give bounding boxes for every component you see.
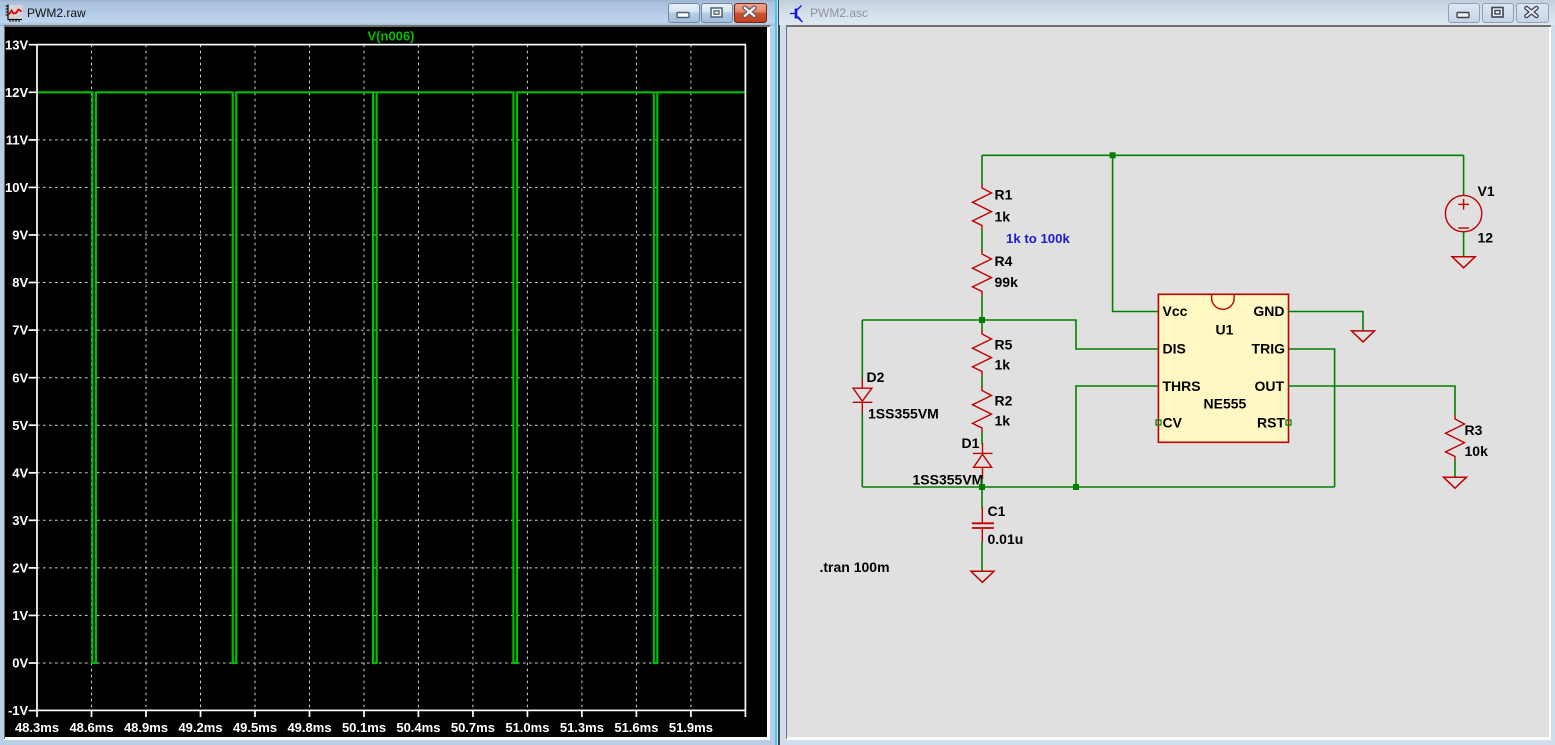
svg-text:51.9ms: 51.9ms	[669, 720, 713, 735]
svg-text:0V: 0V	[12, 656, 28, 671]
ground symbol below V1	[1452, 257, 1475, 268]
wire Vcc branch vertical	[1113, 155, 1159, 311]
svg-text:4V: 4V	[12, 465, 28, 480]
wire THRS pin to bottom rail	[1076, 386, 1158, 487]
svg-text:49.8ms: 49.8ms	[287, 720, 331, 735]
x axis ticks	[37, 710, 745, 717]
black plot client area	[5, 27, 767, 738]
svg-text:51.0ms: 51.0ms	[505, 720, 549, 735]
svg-text:.tran 100m: .tran 100m	[820, 559, 890, 575]
svg-text:51.3ms: 51.3ms	[560, 720, 604, 735]
svg-text:13V: 13V	[5, 37, 28, 52]
svg-text:-1V: -1V	[8, 703, 29, 718]
svg-text:R1: R1	[995, 187, 1013, 203]
svg-text:9V: 9V	[12, 228, 28, 243]
svg-text:1k: 1k	[995, 413, 1011, 429]
node junction bottom rail / C1	[979, 484, 985, 490]
waveform window icon	[5, 4, 23, 22]
svg-text:R3: R3	[1465, 422, 1483, 438]
plot grid vertical dashed lines	[92, 45, 691, 711]
wire GND pin to ground	[1289, 312, 1364, 332]
svg-text:OUT: OUT	[1254, 378, 1284, 394]
svg-text:DIS: DIS	[1163, 341, 1186, 357]
resistor R4	[973, 250, 992, 296]
voltage source V1	[1445, 195, 1481, 231]
svg-text:1k: 1k	[995, 209, 1011, 225]
aero cyan edge at right of window	[775, 0, 777, 745]
wire top rail from R1 to V1	[982, 154, 1464, 156]
pin marker CV (unconnected)	[1156, 420, 1161, 425]
svg-text:R4: R4	[995, 253, 1013, 269]
svg-text:THRS: THRS	[1163, 378, 1201, 394]
wire R5 top lead	[981, 320, 983, 331]
wire C1 top lead	[981, 487, 983, 508]
x axis time labels	[15, 720, 713, 735]
svg-text:RST: RST	[1257, 415, 1285, 431]
svg-text:3V: 3V	[12, 513, 28, 528]
resistor R3	[1446, 415, 1465, 461]
wire C1 bottom to ground	[981, 542, 983, 572]
svg-text:8V: 8V	[12, 275, 28, 290]
svg-text:12V: 12V	[5, 85, 28, 100]
svg-text:2V: 2V	[12, 561, 28, 576]
wire between R1 and R4	[981, 230, 983, 251]
svg-text:49.2ms: 49.2ms	[178, 720, 222, 735]
diode D1 (pointing up)	[973, 443, 993, 479]
ground symbol at GND pin	[1352, 331, 1375, 342]
wire D2 bottom to bottom rail	[861, 414, 863, 488]
svg-text:D1: D1	[962, 435, 980, 451]
client sunken edges	[4, 25, 770, 740]
schematic window icon (blue transistor)	[786, 3, 806, 23]
svg-text:CV: CV	[1163, 415, 1183, 431]
title bar (active)	[0, 0, 777, 26]
node junction R4/R5/D2/DIS	[979, 317, 985, 323]
y axis voltage labels	[5, 37, 28, 718]
title bar (inactive)	[779, 0, 1555, 25]
svg-text:0.01u: 0.01u	[988, 531, 1024, 547]
node junction bottom rail / THRS branch	[1073, 484, 1079, 490]
wire R3 bottom to ground	[1454, 461, 1456, 478]
resistor R2	[973, 387, 992, 433]
svg-text:12: 12	[1478, 230, 1494, 246]
svg-text:1SS355VM: 1SS355VM	[868, 406, 939, 422]
min/restore/close buttons (active)	[668, 3, 700, 23]
wire bottom rail	[862, 486, 1334, 488]
wire R1 top lead	[981, 155, 983, 184]
svg-text:49.5ms: 49.5ms	[233, 720, 277, 735]
svg-text:50.7ms: 50.7ms	[451, 720, 495, 735]
svg-text:51.6ms: 51.6ms	[614, 720, 658, 735]
wire TRIG pin to bottom rail	[1289, 349, 1335, 487]
resistor R1	[973, 184, 992, 230]
wire OUT pin to R3	[1289, 386, 1456, 416]
svg-text:1k to 100k: 1k to 100k	[1006, 231, 1070, 246]
plot border frame	[37, 45, 745, 711]
ground symbol below R3	[1444, 477, 1467, 488]
wire between R5 and R2	[981, 376, 983, 388]
wire D2 branch vertical top	[861, 320, 863, 379]
svg-text:48.6ms: 48.6ms	[69, 720, 113, 735]
svg-text:11V: 11V	[6, 133, 29, 148]
svg-text:Vcc: Vcc	[1163, 303, 1188, 319]
waveform trace V(n006)	[38, 92, 746, 663]
svg-text:D2: D2	[867, 369, 885, 385]
IC U1 NE555 body	[1158, 294, 1288, 442]
svg-text:TRIG: TRIG	[1252, 341, 1286, 357]
svg-text:7V: 7V	[12, 323, 28, 338]
node junction top rail / Vcc branch	[1110, 152, 1116, 158]
dark separator edge	[778, 0, 780, 745]
svg-text:C1: C1	[988, 503, 1006, 519]
wire R2 bottom to D1	[981, 432, 983, 444]
svg-text:R5: R5	[995, 337, 1013, 353]
client sunken edges	[786, 25, 1551, 740]
svg-text:V1: V1	[1478, 183, 1495, 199]
wire D1 bottom to bottom rail	[981, 479, 983, 487]
svg-text:NE555: NE555	[1204, 396, 1247, 412]
svg-text:U1: U1	[1216, 322, 1234, 338]
svg-text:5V: 5V	[12, 418, 28, 433]
wire V1 bottom to ground	[1463, 232, 1465, 257]
svg-text:48.3ms: 48.3ms	[15, 720, 59, 735]
svg-text:1V: 1V	[12, 608, 28, 623]
wire V1 top lead	[1463, 155, 1465, 195]
min/restore/close buttons (inactive)	[1448, 3, 1480, 23]
wire node to DIS pin	[982, 320, 1158, 349]
svg-text:10k: 10k	[1465, 443, 1489, 459]
wire R4 bottom to node	[981, 296, 983, 321]
svg-text:R2: R2	[995, 393, 1013, 409]
pin marker RST (unconnected)	[1286, 420, 1291, 425]
diode D2 (pointing down)	[853, 378, 873, 413]
svg-text:GND: GND	[1253, 303, 1284, 319]
svg-text:6V: 6V	[12, 370, 28, 385]
resistor R5	[973, 330, 992, 376]
gray schematic client area	[787, 27, 1549, 738]
svg-text:99k: 99k	[995, 274, 1019, 290]
plot grid horizontal dashed lines	[37, 92, 745, 663]
svg-text:V(n006): V(n006)	[368, 29, 415, 44]
svg-text:1SS355VM: 1SS355VM	[913, 472, 984, 488]
y axis ticks	[29, 45, 37, 711]
schematic drawing overlay	[777, 0, 1555, 745]
capacitor C1	[972, 507, 994, 543]
svg-text:50.1ms: 50.1ms	[342, 720, 386, 735]
svg-text:1k: 1k	[995, 357, 1011, 373]
svg-text:10V: 10V	[5, 180, 28, 195]
ground symbol below C1	[971, 571, 994, 582]
svg-text:48.9ms: 48.9ms	[124, 720, 168, 735]
wire node to D2 branch (left)	[862, 319, 982, 321]
svg-text:50.4ms: 50.4ms	[396, 720, 440, 735]
